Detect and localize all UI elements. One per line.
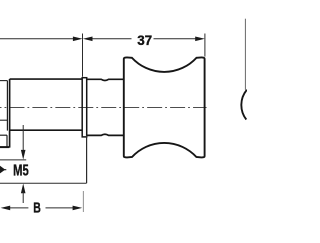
- neck bottom edge with groove bump: [87, 134, 124, 135]
- sleeve top edge: [10, 78, 82, 80]
- dimension line left (cropped dim ending at x=82.5, y=38.8): [0, 38, 73, 40]
- collar disc between sleeve and neck: [82, 78, 87, 137]
- extension line at x=82.5 (top): [82, 34, 84, 77]
- sleeve left inner line: [6, 81, 8, 131]
- B extension line (gray): [82, 191, 84, 212]
- left cropped part: lower step right edge: [6, 135, 8, 146]
- B left arrowhead: [1, 206, 11, 211]
- front view: extension line above circle: [244, 19, 246, 90]
- arrowhead right-pointing (37 dim, right end): [195, 37, 205, 42]
- left cropped part: mid line stub: [0, 119, 7, 121]
- M5 leader vertical (neck edge extension): [86, 135, 88, 183]
- neck top edge with groove bump: [87, 79, 124, 80]
- M5 top leader line: [0, 159, 26, 161]
- B dimension line left segment: [6, 207, 29, 209]
- svg-text:37: 37: [137, 33, 152, 48]
- B right arrowhead: [73, 206, 83, 211]
- M5 bottom leader line: [0, 182, 87, 184]
- left cropped part: top edge stub: [0, 80, 7, 82]
- arrowhead left-pointing (37 dim, left end): [83, 37, 93, 42]
- sleeve left end face line: [9, 79, 11, 148]
- knob outline (spool shaped side view): [124, 57, 205, 157]
- left cropped part: lower step top: [0, 134, 7, 136]
- B dimension line right segment: [46, 207, 74, 209]
- M5 up arrowhead: [21, 184, 26, 194]
- dimension 37 line: [92, 38, 131, 40]
- M5 up arrow shaft: [22, 192, 24, 203]
- stray cropped arrowhead at left edge: [0, 166, 5, 174]
- sleeve bottom edge: [10, 129, 82, 131]
- dimension 37 line right segment: [154, 38, 196, 40]
- left cropped part: bottom thick edge: [0, 146, 9, 148]
- M5 down arrow shaft: [22, 125, 24, 151]
- svg-text:M5: M5: [13, 162, 29, 179]
- M5 down arrowhead: [21, 150, 26, 160]
- front view: partial inner circle arc: [241, 90, 247, 120]
- svg-text:B: B: [33, 200, 41, 217]
- extension line at x=204.9: [204, 34, 206, 57]
- centerline (horizontal axis, dash-dot): [0, 106, 207, 108]
- arrowhead right-pointing at shared extension line: [73, 37, 83, 42]
